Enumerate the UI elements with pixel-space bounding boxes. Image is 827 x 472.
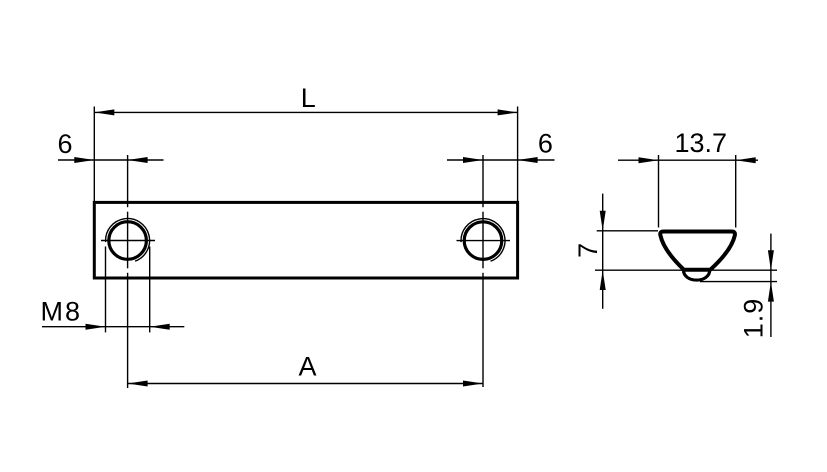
svg-text:M8: M8 <box>41 296 83 326</box>
svg-text:7: 7 <box>573 243 603 258</box>
svg-text:6: 6 <box>538 128 553 158</box>
svg-text:L: L <box>301 83 316 113</box>
svg-text:A: A <box>298 352 316 382</box>
svg-text:1.9: 1.9 <box>739 298 769 339</box>
svg-text:13.7: 13.7 <box>675 128 728 158</box>
svg-text:6: 6 <box>57 129 72 159</box>
